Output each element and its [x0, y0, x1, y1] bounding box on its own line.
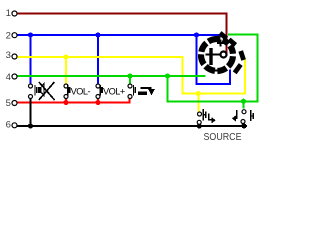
svg-text:SOURCE: SOURCE	[204, 131, 242, 143]
svg-text:4: 4	[6, 72, 11, 83]
svg-text:3: 3	[6, 50, 11, 61]
svg-text:VOL-: VOL-	[71, 87, 91, 97]
svg-text:6: 6	[6, 120, 11, 131]
svg-text:VOL+: VOL+	[103, 87, 125, 97]
svg-text:5: 5	[6, 98, 11, 109]
svg-text:2: 2	[6, 31, 11, 42]
svg-text:1: 1	[6, 8, 11, 19]
